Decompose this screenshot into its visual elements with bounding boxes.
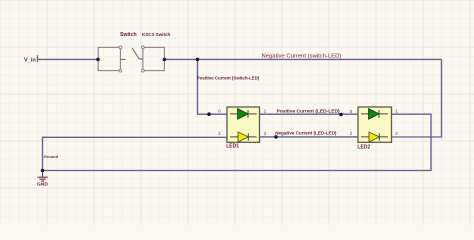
- ground symbol GND: [37, 171, 48, 188]
- LED1 green LED D1: [230, 109, 257, 119]
- wire vertical drop to LED1 pin0: [198, 59, 228, 114]
- wire V_in to switch: [38, 58, 98, 60]
- junction on top wire: [196, 58, 200, 62]
- junction on LED2 pin0 wire: [339, 113, 343, 117]
- LED1 yellow LED D2: [230, 132, 257, 142]
- switch KSC3 box (KSC3 Switch): [142, 46, 165, 72]
- wire right vertical drop to LED2 pin3: [392, 59, 442, 137]
- wire LED1 pin1 to LED2 pin0: [260, 113, 359, 115]
- wire LED1 pin3 to LED2 pin2: [260, 136, 359, 138]
- junction at switch left pin: [96, 58, 100, 62]
- svg-text:LED1: LED1: [226, 144, 239, 150]
- svg-text:Ground: Ground: [44, 154, 59, 159]
- LED1 body: [227, 107, 260, 142]
- net label V_in: [24, 55, 37, 63]
- svg-text:KSC3 Switch: KSC3 Switch: [142, 32, 171, 37]
- svg-text:Switch: Switch: [120, 32, 137, 38]
- LED2 yellow LED D2: [361, 132, 388, 142]
- svg-text:Negative Current (LED-LED): Negative Current (LED-LED): [275, 130, 337, 135]
- junction on LED1 pin0 wire: [207, 112, 211, 116]
- junction at ground node: [41, 169, 45, 173]
- wire switch to right corner (Negative Current): [164, 58, 441, 60]
- svg-text:Positive Current (LED-LED): Positive Current (LED-LED): [277, 108, 340, 114]
- svg-text:Positive Current (Switch-LED): Positive Current (Switch-LED): [197, 76, 260, 81]
- switch S1 box (Switch): [98, 46, 122, 72]
- junction on LED-LED negative wire: [274, 135, 278, 139]
- svg-text:GND: GND: [37, 182, 48, 188]
- svg-text:Negative Current (switch-LED): Negative Current (switch-LED): [262, 54, 342, 60]
- LED2 body: [358, 107, 392, 142]
- svg-text:V_in: V_in: [24, 58, 36, 64]
- junction at switch right pin: [163, 58, 167, 62]
- switch S1 contact stub pin: [120, 58, 125, 60]
- LED2 green LED D1: [361, 109, 388, 119]
- switch lever: [132, 48, 143, 59]
- wire LED2 pin1 to bottom rail: [43, 114, 432, 170]
- svg-text:LED2: LED2: [357, 145, 370, 151]
